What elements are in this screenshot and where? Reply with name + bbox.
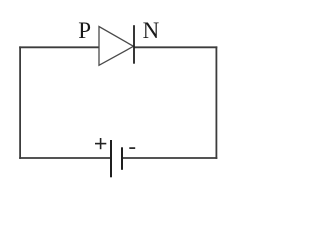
diode D1 triangle (anode) xyxy=(99,27,134,66)
wire: left vertical side xyxy=(19,46,21,158)
battery BT1 positive plate (long) xyxy=(110,140,112,177)
wire: bottom-left segment (to battery +) xyxy=(19,157,111,159)
diode D1 cathode bar xyxy=(133,25,135,64)
wire: right vertical side xyxy=(215,46,217,158)
svg-text:P: P xyxy=(78,18,91,43)
wire: bottom-right segment (from battery -) xyxy=(122,157,217,159)
wire: top-left segment (anode wire) xyxy=(19,46,99,48)
label - (negative terminal) xyxy=(129,147,135,149)
label + (positive terminal) xyxy=(95,138,106,149)
battery BT1 negative plate (short) xyxy=(121,147,123,170)
svg-text:N: N xyxy=(143,18,160,43)
wire: top-right segment (cathode wire) xyxy=(134,46,217,48)
